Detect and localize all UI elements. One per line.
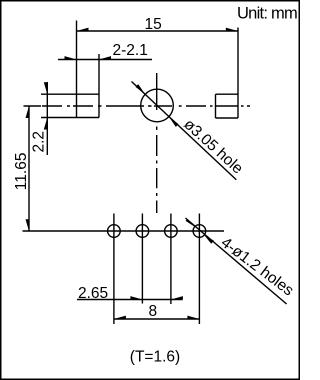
dimension 11.65 (13, 106, 41, 231)
horizontal centerline (42, 105, 213, 107)
hole 1 (108, 225, 121, 238)
svg-text:Unit: mm: Unit: mm (237, 5, 297, 23)
dimension 15 (77, 16, 238, 33)
svg-text:15: 15 (145, 16, 162, 33)
vertical centerline (156, 73, 158, 213)
hole 2 (136, 225, 149, 238)
left pad outline (76, 21, 78, 118)
leader 4-diameter 1.2 holes (185, 218, 296, 304)
hole 4 (193, 225, 206, 238)
bottom holes row centerline (23, 214, 225, 325)
right pad outline (215, 94, 217, 118)
hole 3 (165, 225, 178, 238)
leader diameter 3.05 hole (132, 82, 247, 180)
svg-text:(T=1.6): (T=1.6) (130, 349, 180, 366)
dimension 2.65 (77, 285, 183, 302)
svg-text:2-2.1: 2-2.1 (113, 42, 148, 59)
dimension 2-2.1 (58, 42, 152, 59)
dimension 2.2 (31, 82, 48, 155)
svg-text:2.65: 2.65 (78, 285, 108, 302)
dimension 8 (114, 303, 199, 320)
svg-text:8: 8 (149, 303, 158, 320)
svg-text:2.2: 2.2 (31, 131, 48, 153)
svg-text:11.65: 11.65 (13, 153, 30, 191)
center hole circle (141, 89, 174, 122)
